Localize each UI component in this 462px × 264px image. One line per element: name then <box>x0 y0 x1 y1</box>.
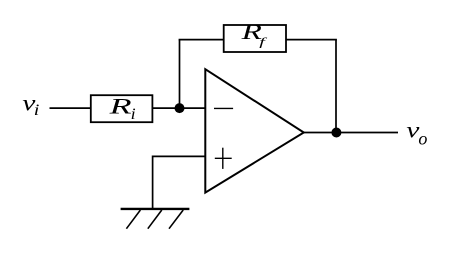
svg-text:o: o <box>418 129 427 149</box>
svg-text:R: R <box>108 94 133 119</box>
svg-text:i: i <box>34 102 40 119</box>
svg-text:i: i <box>131 106 136 123</box>
